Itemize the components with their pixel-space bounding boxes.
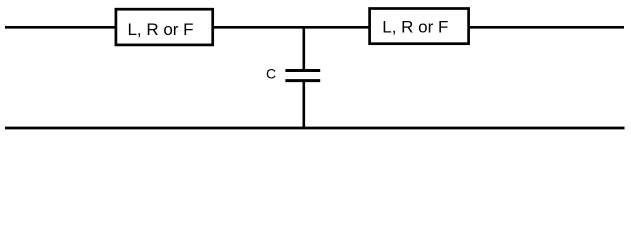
svg-text:L, R or F: L, R or F	[382, 18, 448, 37]
svg-text:C: C	[266, 66, 276, 82]
svg-text:L, R or F: L, R or F	[127, 20, 193, 39]
